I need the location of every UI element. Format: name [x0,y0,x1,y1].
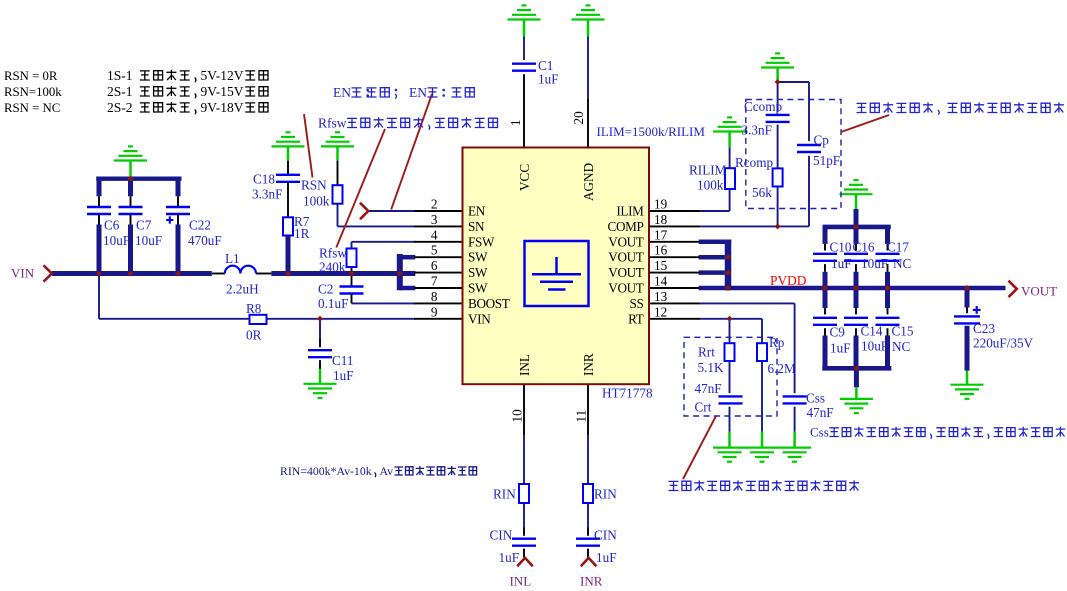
svg-text:9V-15V: 9V-15V [201,84,244,99]
svg-text:C17: C17 [887,240,909,255]
svg-text:2S-1: 2S-1 [107,84,133,99]
svg-text:47nF: 47nF [695,381,722,396]
svg-text:VIN: VIN [11,266,35,281]
svg-text:15: 15 [654,258,668,273]
svg-text:1uF: 1uF [831,256,852,271]
svg-text:NC: NC [893,256,912,271]
svg-text:7: 7 [431,274,438,289]
svg-text:13: 13 [654,289,668,304]
svg-text:6.2M: 6.2M [768,361,796,376]
svg-text:1uF: 1uF [538,72,559,87]
svg-text:1uF: 1uF [830,341,851,356]
svg-text:EN: EN [333,85,351,100]
svg-text:Av: Av [380,464,394,478]
svg-text:C15: C15 [892,324,914,339]
svg-text:10uF: 10uF [861,339,888,354]
svg-text:Css: Css [810,425,829,440]
svg-text:2S-2: 2S-2 [107,100,133,115]
svg-text:4: 4 [431,227,438,242]
svg-text:51pF: 51pF [813,153,840,168]
svg-text:VIN: VIN [468,311,491,326]
svg-text:220uF/35V: 220uF/35V [973,336,1034,351]
svg-text:470uF: 470uF [188,233,222,248]
svg-text:NC: NC [892,339,911,354]
svg-text:1uF: 1uF [499,550,520,565]
svg-text:CIN: CIN [594,528,617,543]
svg-text:12: 12 [654,304,667,319]
svg-text:14: 14 [654,274,668,289]
svg-text:RIN=400k*Av-10k: RIN=400k*Av-10k [280,464,372,478]
svg-text:L1: L1 [225,251,240,266]
svg-text:C10: C10 [830,240,852,255]
svg-text:ILIM=1500k/RILIM: ILIM=1500k/RILIM [597,124,706,139]
svg-text:240k: 240k [319,260,346,275]
svg-text:C16: C16 [853,240,875,255]
svg-text:EN: EN [409,85,427,100]
svg-text:EN: EN [468,204,486,219]
svg-text:FSW: FSW [468,234,495,249]
svg-text:5.1K: 5.1K [698,360,724,375]
svg-text:INR: INR [581,353,596,376]
svg-text:1uF: 1uF [333,368,354,383]
svg-text:INR: INR [580,574,603,589]
svg-text:INL: INL [517,354,532,376]
svg-text:20: 20 [571,111,586,125]
svg-text:9: 9 [431,304,438,319]
svg-text:RIN: RIN [493,487,516,502]
svg-text:INL: INL [510,574,532,589]
svg-text:1R: 1R [294,226,310,241]
svg-text:10uF: 10uF [135,233,162,248]
svg-text:2: 2 [431,197,438,212]
svg-text:47nF: 47nF [807,405,834,420]
svg-text:Rp: Rp [769,335,785,350]
svg-text:Css: Css [806,391,825,406]
svg-text:8: 8 [431,289,438,304]
svg-text:Rrt: Rrt [698,345,715,360]
svg-text:16: 16 [654,243,668,258]
svg-text:C6: C6 [104,218,120,233]
svg-text:5: 5 [431,243,438,258]
svg-text:C14: C14 [861,324,883,339]
svg-text:3.3nF: 3.3nF [252,187,282,202]
svg-text:CIN: CIN [490,528,513,543]
svg-text:AGND: AGND [581,163,596,201]
svg-text:SW: SW [468,281,488,296]
svg-text:RIN: RIN [594,487,617,502]
svg-text:VOUT: VOUT [608,281,644,296]
svg-text:19: 19 [654,197,668,212]
svg-text:3: 3 [431,212,438,227]
svg-text:1: 1 [508,119,523,126]
svg-text:HT71778: HT71778 [602,386,653,401]
svg-text:VOUT: VOUT [608,250,644,265]
svg-text:VOUT: VOUT [1021,284,1057,299]
svg-text:SW: SW [468,250,488,265]
svg-text:11: 11 [574,410,589,423]
svg-text:RSN = 0R: RSN = 0R [4,69,58,83]
svg-text:0.1uF: 0.1uF [318,296,348,311]
svg-text:9V-18V: 9V-18V [201,100,244,115]
svg-text:1uF: 1uF [596,550,617,565]
svg-text:2.2uH: 2.2uH [226,282,259,297]
svg-text:BOOST: BOOST [468,296,510,311]
svg-text:COMP: COMP [608,219,644,234]
svg-text:17: 17 [654,227,668,242]
svg-text:100k: 100k [303,194,330,209]
svg-text:VOUT: VOUT [608,265,644,280]
svg-text:10uF: 10uF [861,256,888,271]
svg-text:C11: C11 [332,353,354,368]
svg-text:C22: C22 [189,218,211,233]
svg-text:VCC: VCC [517,164,532,191]
svg-text:5V-12V: 5V-12V [201,68,244,83]
svg-text:C23: C23 [973,321,995,336]
svg-text:6: 6 [431,258,438,273]
svg-text:C9: C9 [830,325,846,340]
svg-text:Rfsw: Rfsw [318,116,347,131]
svg-text:Ccomp: Ccomp [744,99,783,114]
svg-text:C2: C2 [318,282,333,297]
svg-text:RSN=100k: RSN=100k [4,85,62,99]
svg-text:PVDD: PVDD [770,273,807,288]
svg-text:RILIM: RILIM [689,163,727,178]
svg-text:0R: 0R [246,328,262,343]
svg-text:10uF: 10uF [103,233,130,248]
svg-text:Rfsw: Rfsw [319,246,347,261]
svg-text:C7: C7 [136,218,152,233]
svg-text:Crt: Crt [695,400,712,415]
svg-text:3.3nF: 3.3nF [742,123,772,138]
svg-text:100k: 100k [697,178,724,193]
svg-text:SW: SW [468,265,488,280]
svg-text:VOUT: VOUT [608,234,644,249]
svg-text:ILIM: ILIM [616,204,644,219]
svg-text:R8: R8 [246,301,262,316]
svg-text:18: 18 [654,212,668,227]
svg-text:Rcomp: Rcomp [735,155,774,170]
svg-text:56k: 56k [752,185,772,200]
svg-text:RSN: RSN [301,178,327,193]
svg-text:10: 10 [510,409,525,423]
svg-text:SS: SS [630,296,644,311]
svg-text:RSN = NC: RSN = NC [4,101,60,115]
svg-text:1S-1: 1S-1 [107,68,133,83]
svg-text:C18: C18 [253,172,275,187]
svg-text:RT: RT [628,311,644,326]
svg-text:Cp: Cp [814,133,830,148]
svg-text:SN: SN [468,219,485,234]
